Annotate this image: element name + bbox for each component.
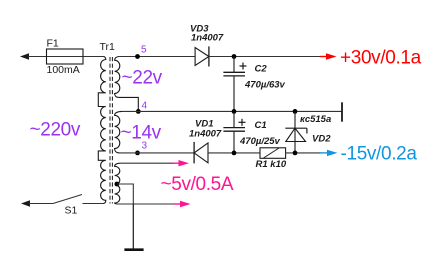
center tap junction dot	[115, 182, 120, 187]
junction dot at C2 bottom / C1 top	[232, 109, 237, 114]
node 3 junction dot	[135, 151, 140, 156]
ground	[124, 204, 143, 250]
node 5 label	[141, 45, 147, 56]
capacitor C2	[223, 57, 285, 112]
blue -15v output arrow	[320, 150, 338, 156]
svg-text:+30v/0.1a: +30v/0.1a	[340, 48, 422, 69]
transformer secondary winding ~14v (between node 4 and node 3)	[115, 111, 122, 152]
svg-text:1n4007: 1n4007	[189, 129, 222, 140]
node 4 label	[142, 101, 148, 112]
terminal bar at right end of node-4 wire	[341, 102, 343, 121]
wire: R1 to -15v output	[286, 152, 322, 154]
transformer Tr1 label	[100, 41, 116, 53]
label ~220v	[30, 120, 81, 141]
svg-text:R1 k10: R1 k10	[256, 159, 287, 170]
wire: mains to fuse to transformer primary	[28, 56, 104, 58]
junction dot at zener bottom	[293, 151, 298, 156]
resistor R1	[256, 148, 287, 170]
label +30v/0.1a	[340, 48, 422, 69]
svg-text:~22v: ~22v	[122, 68, 163, 89]
svg-text:~220v: ~220v	[30, 120, 81, 141]
svg-text:VD2: VD2	[312, 134, 331, 145]
zener diode VD2	[285, 111, 331, 152]
diode VD3	[190, 24, 224, 67]
transformer core (two dashed lines)	[110, 57, 112, 204]
svg-text:470µ/63v: 470µ/63v	[244, 80, 286, 91]
svg-text:Tr1: Tr1	[100, 41, 116, 53]
wire: node 5 row (secondary top to VD3)	[119, 56, 195, 58]
node 4 junction dot	[136, 109, 141, 114]
transformer secondary winding ~22v (between node 5 and node 4)	[115, 57, 139, 112]
mains input arrow (top left)	[20, 53, 29, 60]
diode VD1	[189, 119, 222, 164]
junction dot at C1 bottom	[232, 151, 237, 156]
svg-text:S1: S1	[65, 205, 78, 217]
svg-text:4: 4	[142, 101, 148, 112]
switch S1	[21, 195, 103, 217]
svg-text:~5v/0.5A: ~5v/0.5A	[161, 174, 234, 195]
svg-text:3: 3	[142, 141, 148, 152]
svg-text:F1: F1	[47, 38, 59, 50]
node 3 label	[142, 141, 148, 152]
label ~5v/0.5A	[161, 174, 234, 195]
svg-text:1n4007: 1n4007	[191, 33, 224, 44]
transformer secondary winding ~5v with center tap	[115, 163, 120, 204]
svg-text:100mA: 100mA	[47, 64, 80, 76]
wire: VD3 cathode to +30v output	[209, 56, 322, 58]
svg-text:5: 5	[141, 45, 147, 56]
svg-text:кс515а: кс515а	[300, 114, 331, 125]
wire: center tap to ground stem	[117, 184, 133, 204]
capacitor C1	[223, 111, 280, 152]
wire: VD1 to C1 bottom to R1	[208, 152, 260, 154]
svg-text:C1: C1	[255, 120, 267, 131]
label -15v/0.2a	[341, 144, 418, 165]
fuse F1	[47, 38, 84, 77]
junction dot at zener branch top	[293, 109, 298, 114]
red +30v output arrow	[320, 53, 337, 59]
label ~14v	[121, 123, 162, 144]
label ~22v	[122, 68, 163, 89]
pink output arrow (5v bottom)	[173, 201, 191, 207]
svg-text:470µ/25v: 470µ/25v	[239, 136, 281, 147]
wire: 5v winding top output	[120, 162, 174, 164]
svg-text:-15v/0.2a: -15v/0.2a	[341, 144, 418, 165]
label kc515a	[300, 114, 331, 125]
wire: node 4 row (to zener branch terminal)	[122, 110, 342, 112]
pink output arrow (5v top)	[172, 160, 189, 166]
transformer Tr1 primary winding	[98, 57, 106, 204]
svg-text:C2: C2	[255, 64, 268, 75]
junction dot at C2 top	[232, 54, 237, 59]
wire: node 3 row (to VD1)	[120, 152, 195, 154]
node 5 junction dot	[135, 54, 140, 59]
wire: 5v winding bottom output	[118, 203, 176, 205]
